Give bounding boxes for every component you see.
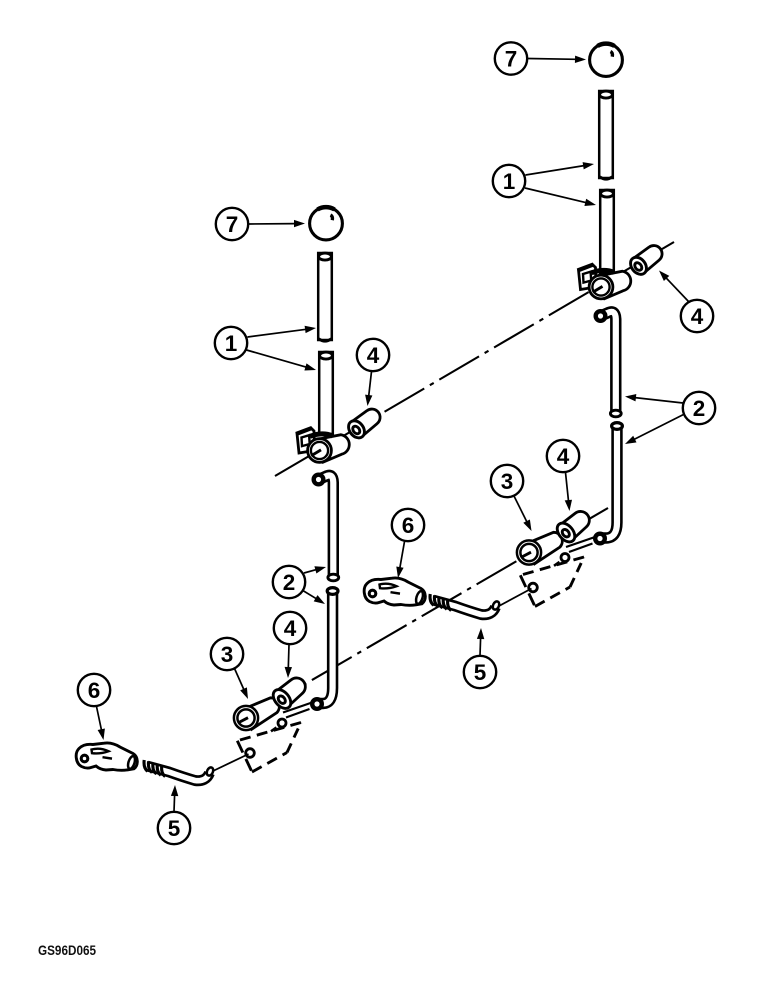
svg-text:5: 5 [168,816,181,841]
svg-text:GS96D065: GS96D065 [38,943,96,959]
rod segment 1b (right lower tube) [600,190,614,273]
valve body 3 (right) [517,532,562,564]
callout circle 4 (left valve) [274,612,306,644]
lower pivot axis center line [257,508,608,712]
knob ball 7 (left) [310,207,343,240]
arrow 2 to upper rod (right) [625,394,683,403]
valve plate (right, dashed hidden outline) [520,557,584,607]
svg-text:4: 4 [284,616,297,641]
bushing 4 (right upper) [627,246,662,278]
callout circle 3 (right) [491,465,523,497]
arrow 7 to ball (left) [249,220,305,227]
arrow 1 to lower tube (right) [525,188,596,206]
valve lever arm (left) [283,703,312,718]
svg-text:7: 7 [505,46,518,71]
callout circle 2 (right) [683,392,715,424]
valve holes (left) [246,719,286,757]
svg-text:1: 1 [225,331,238,356]
arrow 3 to valve (right) [514,496,532,531]
svg-text:4: 4 [367,343,380,368]
arrow 6 to clevis (right) [396,542,404,579]
arrow 2 to lower rod (left) [302,590,325,604]
clamp bracket (left pivot clamp) [296,428,349,463]
bent rod 2 lower segment (left) [312,588,338,709]
valve lever arm (right) [566,537,595,552]
valve body 3 (left) [234,698,279,730]
arrow 4 to valve bushing (right) [565,473,572,512]
valve holes (right) [529,554,569,592]
arrow 1 to upper tube (left) [248,326,317,337]
rod segment 1a (right upper tube) [599,91,613,179]
arrow 7 to ball (right) [528,56,586,63]
rod segment 1a (left upper tube) [318,253,332,341]
svg-text:6: 6 [88,678,101,703]
callout circle 6 (right) [392,509,424,541]
svg-text:7: 7 [226,212,239,237]
clevis 6 (left) [76,743,137,770]
bushing 4 (left valve) [270,678,306,712]
callout circle 4 (left upper) [357,339,389,371]
arrow 3 to valve (left) [235,669,249,700]
svg-text:6: 6 [402,513,415,538]
callout circle 6 (left) [78,674,110,706]
callout circle 5 (right) [464,656,496,688]
bushing 4 (right valve) [554,511,590,545]
svg-text:3: 3 [221,642,234,667]
svg-text:2: 2 [283,570,296,595]
callout circle 1 (right) [493,165,525,197]
svg-text:4: 4 [691,304,704,329]
clamp bracket (right pivot clamp) [578,264,631,299]
callout circle 7 (right) [495,42,527,74]
svg-text:4: 4 [557,444,570,469]
lever 5 (left, threaded rod) [144,760,214,781]
arrow 5 to lever (left) [171,785,178,812]
rod segment 1b (left lower tube) [319,352,333,434]
callout circle 1 (left) [215,327,247,359]
svg-text:2: 2 [693,396,706,421]
arrow 4 to bushing (left upper) [365,372,372,407]
arrow 4 to valve bushing (left) [285,645,292,679]
callout circle 5 (left) [158,812,190,844]
bent rod 2 upper segment (left) [314,475,339,581]
leader line lever 5 to valve hole (left) [213,754,249,771]
bent rod 2 lower segment (right) [595,423,622,544]
clevis 6 (right) [364,578,425,605]
arrow 2 to upper rod (left) [304,566,326,573]
knob ball 7 (right) [590,44,623,77]
callout circle 4 (right valve) [547,440,579,472]
arrow 5 to lever (right) [477,628,484,656]
callout circle 7 (left) [216,208,248,240]
lever 5 (right, threaded rod) [430,594,500,615]
svg-text:1: 1 [503,169,516,194]
arrow 1 to lower tube (left) [247,350,317,371]
arrow 4 to bushing (right upper) [659,271,689,303]
arrow 6 to clevis (left) [97,707,105,741]
callout circle 2 (left) [273,566,305,598]
svg-text:5: 5 [474,660,487,685]
arrow 1 to upper tube (right) [526,162,595,175]
arrow 2 to lower rod (right) [625,414,685,444]
callout circle 3 (left) [211,638,243,670]
upper pivot axis center line [275,242,674,476]
valve plate (left, dashed hidden outline) [237,723,301,773]
leader line lever 5 to valve hole (right) [499,589,532,607]
svg-text:3: 3 [501,469,514,494]
bushing 4 (left upper) [345,409,380,441]
callout circle 4 (right upper) [681,300,713,332]
bent rod 2 upper segment (right) [596,311,621,417]
